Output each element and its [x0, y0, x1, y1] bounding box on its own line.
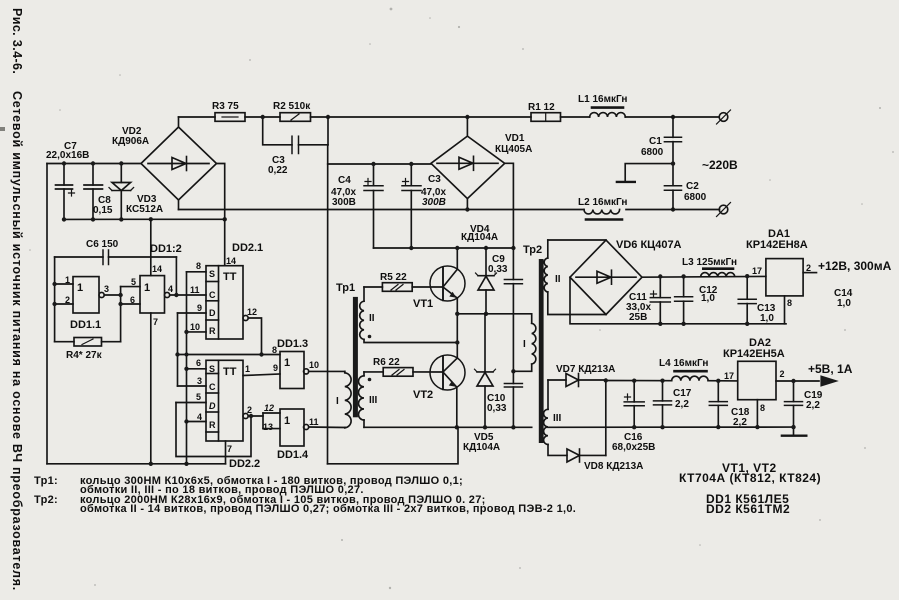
wire: S/R ground bus [186, 272, 188, 464]
svg-text:+5В, 1А: +5В, 1А [808, 362, 853, 376]
wire: DD1:2 pin 14 to aux plus rail [150, 219, 152, 275]
capacitor C17 2,2 [654, 381, 692, 428]
transformer Tp1 winding III [358, 372, 377, 420]
svg-text:0,33: 0,33 [487, 403, 507, 414]
junction dots on mains top rail [261, 115, 676, 119]
svg-text:С2: С2 [686, 181, 699, 192]
svg-text:L3 125мкГн: L3 125мкГн [682, 257, 737, 268]
transformer Tp2 winding II [544, 240, 606, 315]
note: transistor types VT1 VT2 [679, 461, 821, 485]
wire: VT2 emitter to common rail [456, 387, 458, 427]
diode VD8 КД213А [567, 449, 643, 472]
capacitor C19 2,2 [785, 381, 823, 427]
wire: VD1 bottom vertex stub to mains bottom rail [466, 199, 468, 210]
junction dots 5V rails [604, 378, 796, 429]
wire: mains bottom rail [179, 209, 585, 211]
svg-text:68,0х25В: 68,0х25В [612, 442, 655, 453]
bridge rectifier VD6 КЦ407А [570, 239, 682, 315]
svg-text:II: II [369, 313, 375, 324]
svg-text:L4 16мкГн: L4 16мкГн [659, 358, 708, 369]
sidebar caption: figure number [10, 8, 24, 74]
junction dots logic mid [175, 330, 263, 424]
svg-text:I: I [523, 339, 526, 350]
flip-flop DD2.2 [196, 358, 260, 470]
svg-text:2: 2 [780, 369, 785, 379]
wire: HV plus rail to C4 C3 and VD1 left vertex [328, 163, 431, 165]
svg-text:III: III [553, 413, 562, 424]
svg-text:8: 8 [787, 298, 792, 308]
svg-text:D: D [209, 401, 216, 411]
wire: VD2 bottom vertex to mains bottom rail [178, 200, 180, 210]
junction dot Q2-bar node [249, 414, 253, 418]
svg-text:R: R [209, 326, 216, 336]
wire: feedback from C6 rail down to DD1:2 output node [175, 257, 177, 295]
svg-text:~220В: ~220В [702, 158, 738, 172]
svg-text:1: 1 [65, 275, 70, 285]
bridge rectifier VD2 КД906А [112, 126, 217, 200]
svg-text:DD2 К561ТМ2: DD2 К561ТМ2 [706, 502, 790, 516]
mains terminal 1 [717, 110, 731, 124]
resistor R6 22 [364, 357, 443, 376]
capacitor C4 47,0x300В [331, 164, 383, 248]
svg-text:6800: 6800 [684, 192, 707, 203]
svg-text:R4* 27к: R4* 27к [66, 350, 103, 361]
svg-text:VD7 КД213А: VD7 КД213А [556, 364, 615, 375]
svg-text:7: 7 [227, 444, 232, 454]
transistor VT2 [413, 355, 465, 401]
svg-text:R2 510к: R2 510к [273, 101, 311, 112]
junction dots on mains bottom rail [465, 207, 675, 211]
wire: aux plus rail (bottom of C7/C8/VD3) [64, 218, 225, 220]
svg-text:14: 14 [152, 264, 162, 274]
svg-text:C: C [209, 382, 216, 392]
svg-text:C: C [209, 290, 216, 300]
wire: Q1-bar to D1 and DD1.3 pin 8 [178, 354, 281, 356]
svg-text:8: 8 [196, 261, 201, 271]
wire: D1 to C2 link vertical [177, 313, 179, 386]
sidebar caption: schematic title [10, 91, 24, 591]
svg-text:5: 5 [196, 392, 201, 402]
svg-text:0,22: 0,22 [268, 165, 288, 176]
svg-text:VD1: VD1 [505, 133, 525, 144]
svg-text:TT: TT [223, 366, 237, 378]
svg-text:КР142ЕН5А: КР142ЕН5А [723, 348, 785, 360]
svg-text:DD1.3: DD1.3 [277, 338, 308, 350]
voltage regulator DA2 КР142ЕН5А [723, 337, 819, 427]
svg-text:R6 22: R6 22 [373, 357, 400, 368]
svg-text:R1 12: R1 12 [528, 102, 555, 113]
diode VD4 КД104А [461, 224, 498, 314]
svg-text:9: 9 [273, 363, 278, 373]
svg-text:12: 12 [264, 403, 274, 413]
svg-text:S: S [209, 269, 215, 279]
wire: DD1.1 output node vertical (pins 5/6 tie and R4) [120, 287, 122, 342]
svg-text:2: 2 [65, 295, 70, 305]
logic gate DD1:2 [121, 243, 206, 327]
svg-text:L1 16мкГн: L1 16мкГн [578, 94, 627, 105]
capacitor C16 68,0x25В [612, 381, 655, 453]
wire: DD2.2 pin 7 to ground rail A [225, 441, 227, 464]
voltage regulator DA1 КР142ЕН8А [746, 228, 817, 324]
resistor R1 12 [528, 102, 561, 121]
wire: R2 to VD1 top stub and R1 [311, 116, 532, 118]
flip-flop DD2.1 output 12 with bubble [243, 315, 248, 320]
svg-text:VD8 КД213А: VD8 КД213А [584, 461, 643, 472]
svg-text:R5 22: R5 22 [380, 272, 407, 283]
capacitor C11 33,0x25В [626, 277, 670, 324]
inductor L2 16мкГн [578, 197, 627, 220]
svg-text:7: 7 [153, 317, 158, 327]
svg-text:8: 8 [760, 403, 765, 413]
svg-text:I: I [336, 396, 339, 407]
wire: VD1 top vertex stub to mains top rail [466, 117, 468, 136]
capacitor C2 6800 [664, 164, 706, 210]
svg-text:С6 150: С6 150 [86, 239, 119, 250]
junction dots on aux rails [62, 161, 227, 221]
svg-text:11: 11 [309, 417, 319, 427]
svg-text:DD1:2: DD1:2 [150, 243, 182, 255]
net label +12В, 300мА [818, 259, 892, 273]
svg-text:1: 1 [245, 364, 250, 374]
capacitor C3' 47,0x300В [402, 164, 446, 248]
svg-text:DD1.4: DD1.4 [277, 449, 309, 461]
svg-text:+12В, 300мА: +12В, 300мА [818, 259, 892, 273]
flip-flop DD2.1 [190, 242, 263, 339]
wire: winding III bottom to VT2 emitter rail [363, 420, 365, 427]
inductor L1 16мкГн [578, 94, 627, 117]
capacitor C14 (label only) [834, 288, 853, 309]
wire: DD1:2 pin 7 down to logic ground rail A [150, 313, 152, 464]
svg-text:14: 14 [226, 256, 236, 266]
logic gate DD1.3 [272, 338, 345, 389]
wire: VT1 emitter down to VT2 collector [456, 298, 458, 358]
logic gate DD1.4 [263, 403, 345, 461]
svg-text:25В: 25В [629, 312, 647, 323]
wire: logic ground rail A [47, 463, 226, 465]
svg-text:С4: С4 [338, 175, 351, 186]
svg-text:6800: 6800 [641, 147, 664, 158]
svg-text:4: 4 [168, 284, 173, 294]
wire: Q2-bar to D2 feedback loop [176, 403, 251, 457]
wire: R3 to R2 [245, 116, 280, 118]
wire: VD8 cathode up to 5V plus rail [605, 381, 607, 456]
inductor L4 16мкГн [659, 358, 708, 381]
svg-text:1: 1 [144, 282, 150, 294]
svg-text:Рис. 3.4-6.: Рис. 3.4-6. [10, 8, 24, 74]
svg-text:III: III [369, 395, 378, 406]
wire: mains top rail [179, 116, 216, 118]
capacitor C18 2,2 [709, 381, 749, 428]
svg-text:обмотка II - 14 витков, провод: обмотка II - 14 витков, провод ПЭЛШО 0,2… [80, 503, 576, 515]
svg-text:22,0x16В: 22,0x16В [46, 150, 89, 161]
svg-text:КР142ЕН8А: КР142ЕН8А [746, 239, 808, 251]
transformer Tp2 core [523, 244, 544, 443]
svg-text:КД104А: КД104А [461, 232, 498, 243]
svg-text:300В: 300В [332, 197, 356, 208]
diode VD7 КД213А [548, 364, 615, 387]
svg-text:КС512А: КС512А [126, 204, 163, 215]
svg-text:17: 17 [724, 371, 734, 381]
svg-text:5: 5 [131, 277, 136, 287]
svg-text:КТ704А (КТ812, КТ824): КТ704А (КТ812, КТ824) [679, 471, 821, 485]
svg-text:R3 75: R3 75 [212, 101, 239, 112]
svg-text:Тр2:: Тр2: [34, 494, 58, 506]
wire: aux minus rail (top-left horizontal) [47, 163, 141, 165]
capacitor C12 1,0 [675, 276, 718, 323]
svg-text:1,0: 1,0 [837, 298, 851, 309]
note: transformer winding data [34, 475, 576, 515]
svg-text:1: 1 [77, 282, 83, 294]
transformer Tp1 core [336, 282, 358, 417]
junction dot C1/C2 midpoint [671, 161, 675, 165]
svg-text:3: 3 [104, 284, 109, 294]
svg-text:Тр2: Тр2 [523, 244, 542, 256]
wire: converter plus rail [374, 247, 514, 249]
svg-text:0,15: 0,15 [93, 205, 113, 216]
svg-text:1: 1 [284, 415, 290, 427]
svg-text:10: 10 [190, 322, 200, 332]
capacitor C7 [46, 141, 89, 219]
svg-text:6: 6 [130, 295, 135, 305]
svg-text:6: 6 [196, 358, 201, 368]
svg-text:11: 11 [190, 285, 200, 295]
svg-text:2,2: 2,2 [675, 399, 689, 410]
svg-text:VT2: VT2 [413, 389, 433, 401]
bridge rectifier VD1 КЦ405А [431, 133, 532, 199]
capacitor C13 1,0 [738, 276, 776, 324]
transformer Tp1 winding I [336, 371, 351, 427]
svg-text:VD6 КЦ407А: VD6 КЦ407А [616, 239, 682, 251]
resistor R3 75 [212, 101, 245, 121]
zener diode VD3 КС512А [109, 164, 163, 220]
wire: VT1 emitter rail to Tp2 winding I top [457, 314, 531, 324]
wire: converter common rail B up to emitter rail [328, 427, 459, 464]
svg-text:L2 16мкГн: L2 16мкГн [578, 197, 627, 208]
svg-text:13: 13 [263, 422, 273, 432]
chassis ground of mains filter [617, 164, 673, 182]
transformer Tp2 winding I [513, 323, 535, 371]
ground symbol of 5V output [782, 427, 806, 436]
wire: VT2 emitter common rail [364, 426, 532, 428]
svg-text:12: 12 [247, 307, 257, 317]
note: IC types DD1 DD2 [706, 492, 790, 516]
mains terminal 2 [717, 203, 731, 217]
flip-flop DD2.2 output 2 with bubble [243, 413, 248, 418]
svg-text:2,2: 2,2 [733, 417, 747, 428]
capacitor C8 [84, 164, 113, 220]
resistor R4* 27к [55, 338, 121, 362]
capacitor C6 150 (oscillator feedback) [55, 239, 177, 265]
svg-text:1,0: 1,0 [760, 313, 774, 324]
svg-text:TT: TT [223, 271, 237, 283]
wire: VD6 right vertex to DA1 input rail [642, 275, 766, 278]
svg-text:II: II [555, 274, 561, 285]
svg-text:3: 3 [197, 376, 202, 386]
wire: winding II top to VD6 top vertex [548, 239, 606, 241]
junction dots at oscillator nodes [52, 282, 188, 466]
svg-text:300В: 300В [422, 197, 446, 208]
wire: VD2 top vertex to mains top rail [178, 117, 180, 127]
svg-text:1: 1 [284, 357, 290, 369]
wire: left vertical from minus rail down to logic ground rail A [46, 164, 48, 464]
svg-text:17: 17 [752, 266, 762, 276]
wire: VD2 right vertex down to DD2.1 pin 14 [217, 164, 225, 266]
svg-text:DD1.1: DD1.1 [70, 319, 101, 331]
capacitor C9 0,33 [488, 248, 522, 372]
junction dots 12V rails [658, 274, 749, 326]
svg-text:2,2: 2,2 [806, 400, 820, 411]
logic gate DD1.1 [55, 275, 121, 331]
svg-text:0,33: 0,33 [488, 264, 508, 275]
wire: L4 to DA2 pin 17 [708, 380, 738, 382]
svg-text:10: 10 [309, 360, 319, 370]
svg-text:DD2.1: DD2.1 [232, 242, 263, 254]
svg-text:9: 9 [197, 303, 202, 313]
flip-flop DD2.2 pin wires [187, 368, 207, 370]
output arrow +5В, 1А [808, 362, 853, 387]
net label ~220В [702, 158, 738, 172]
svg-text:S: S [209, 364, 215, 374]
svg-text:С17: С17 [673, 388, 692, 399]
svg-text:КД104А: КД104А [463, 442, 500, 453]
svg-text:Сетевой импульсный источник пи: Сетевой импульсный источник питания на о… [10, 91, 24, 591]
svg-text:R: R [209, 420, 216, 430]
transformer Tp2 winding III [544, 380, 567, 455]
svg-text:КЦ405А: КЦ405А [495, 144, 532, 155]
svg-text:4: 4 [197, 412, 202, 422]
diode VD5 КД104А [463, 314, 500, 453]
wire: feedback vertical from R2/C3 down to converter common rail B [327, 117, 329, 145]
transistor VT1 [413, 266, 465, 310]
capacitor C1 6800 [641, 117, 682, 164]
wire: winding II bottom to VT1 emitter node [364, 339, 457, 342]
svg-text:1,0: 1,0 [701, 293, 715, 304]
flip-flop DD2.2 output 1 to DD1.3 pin 9 [243, 374, 280, 376]
svg-text:КД906А: КД906А [112, 136, 149, 147]
wire: VT1 collector to converter plus rail [456, 248, 458, 270]
resistor R5 22 [364, 272, 443, 291]
svg-text:Тр1: Тр1 [336, 282, 355, 294]
wire: DD1.1 input bus [54, 257, 56, 342]
wire: winding III mid tap to 5V common rail [548, 426, 794, 428]
wire: VD1 right vertex down to converter plus rail [505, 163, 514, 247]
svg-text:Тр1:: Тр1: [34, 475, 58, 487]
wire: L1 to output terminal 1 [561, 116, 590, 118]
svg-text:С1: С1 [649, 136, 662, 147]
wire: 5V plus rail [606, 380, 672, 382]
wire: VD6 left vertex down to 12V minus rail [570, 277, 786, 324]
svg-text:VT1: VT1 [413, 298, 433, 310]
svg-text:D: D [209, 308, 216, 318]
capacitor C10 0,33 [487, 371, 522, 427]
resistor R2 510к [273, 101, 311, 121]
svg-text:2: 2 [806, 263, 811, 273]
transformer Tp1 winding II [360, 287, 375, 339]
capacitor C3 0,22 (parallel with R2) [263, 117, 328, 176]
svg-text:DD2.2: DD2.2 [229, 458, 260, 470]
inductor L3 125мкГн [682, 257, 737, 276]
flip-flop DD2.1 pin wires [187, 271, 207, 273]
svg-text:С3: С3 [428, 174, 441, 185]
junction dots on HV rail [371, 162, 413, 166]
